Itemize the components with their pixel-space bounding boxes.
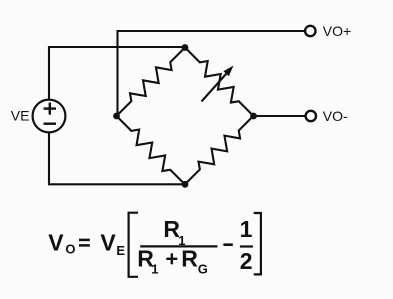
terminal VO- xyxy=(306,111,316,121)
formula fraction bar xyxy=(140,245,217,247)
variable resistor RG strain gauge (top-right arm, top node to right node) xyxy=(180,43,258,121)
arrow of variable resistor RG xyxy=(202,66,234,102)
svg-text:VO+: VO+ xyxy=(323,23,351,39)
formula left bracket xyxy=(129,213,138,277)
resistor (bottom-right arm, bottom node to right node) xyxy=(180,111,258,189)
formula equals sign xyxy=(79,239,90,242)
svg-text:V: V xyxy=(100,229,116,255)
wire: VE top to top node xyxy=(49,47,185,101)
formula second fraction bar xyxy=(240,245,253,247)
formula minus sign xyxy=(223,243,232,246)
terminal VO+ xyxy=(305,26,315,36)
svg-text:VE: VE xyxy=(11,108,30,124)
svg-text:VO-: VO- xyxy=(323,108,348,124)
svg-text:1: 1 xyxy=(151,262,158,277)
resistor R1 (top-left arm, left node to top node) xyxy=(112,43,190,121)
node: left xyxy=(113,113,120,120)
svg-text:V: V xyxy=(48,229,64,255)
formula right bracket xyxy=(254,213,261,274)
resistor (bottom-left arm, left node to bottom node) xyxy=(112,111,190,189)
node: right xyxy=(250,113,257,120)
svg-text:E: E xyxy=(116,243,125,258)
svg-text:R: R xyxy=(181,245,198,271)
svg-text:O: O xyxy=(65,241,75,256)
svg-text:1: 1 xyxy=(240,216,253,242)
wire: left node up and across to VO+ terminal xyxy=(118,31,305,116)
svg-text:G: G xyxy=(198,262,208,277)
svg-text:2: 2 xyxy=(240,248,253,274)
node: bottom xyxy=(182,181,189,188)
wire: bottom node left and up to VE bottom xyxy=(49,132,185,185)
voltage source VE xyxy=(33,100,66,133)
formula plus sign xyxy=(166,258,177,260)
formula: VO = VE [ R1/(R1+RG) - 1/2 ] xyxy=(48,213,261,277)
node: top xyxy=(182,44,189,51)
wire: right node to VO- terminal xyxy=(254,115,306,117)
